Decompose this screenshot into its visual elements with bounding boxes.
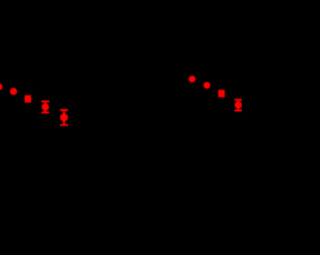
data point R4 [235, 101, 242, 108]
data point R3 [218, 90, 225, 97]
error bar of P4 [41, 102, 49, 113]
error bar of R3 [218, 90, 225, 96]
data point R1 (right branch) [189, 76, 196, 83]
data point P4 [42, 103, 49, 110]
data point P3 [24, 95, 31, 102]
error bar of R4 (clipped at right edge) [234, 100, 242, 111]
data point P5 [60, 113, 68, 121]
error bar of P5 [60, 110, 68, 125]
data point P2 [10, 88, 17, 95]
error bar of P3 [25, 96, 32, 103]
data point R2 [203, 82, 210, 89]
data point P1 (left branch, clipped at left edge) [0, 83, 3, 90]
